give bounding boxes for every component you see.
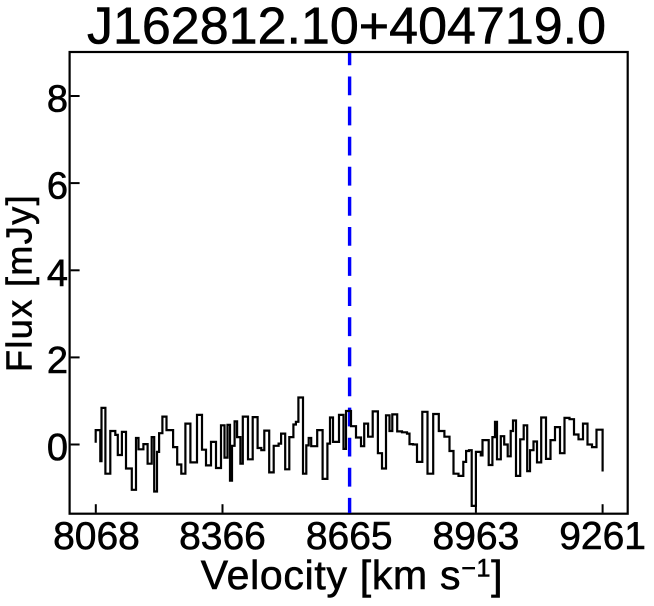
svg-text:8: 8 bbox=[47, 79, 68, 121]
svg-text:0: 0 bbox=[47, 427, 68, 469]
svg-text:4: 4 bbox=[47, 253, 68, 295]
svg-text:J162812.10+404719.0: J162812.10+404719.0 bbox=[87, 0, 606, 56]
svg-text:8068: 8068 bbox=[53, 515, 140, 558]
svg-text:2: 2 bbox=[47, 340, 68, 382]
svg-text:Velocity [km s−1]: Velocity [km s−1] bbox=[201, 552, 503, 598]
svg-text:6: 6 bbox=[47, 166, 68, 208]
svg-text:Flux [mJy]: Flux [mJy] bbox=[0, 194, 40, 372]
svg-text:9261: 9261 bbox=[559, 515, 646, 558]
